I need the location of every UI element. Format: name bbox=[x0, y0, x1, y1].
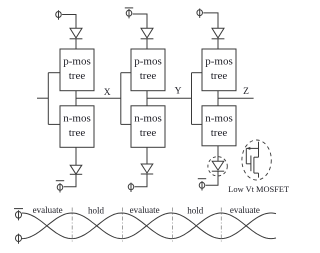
wire p-mos tree to n-mos tree (series connector, stage 3) bbox=[217, 91, 219, 106]
wire input stub into stage 1 bbox=[37, 97, 48, 99]
wire n-mos tree to diode D2b bbox=[146, 147, 148, 164]
wire input bus to p-mos tree input (stage 1) bbox=[48, 72, 60, 74]
diode D1b (bottom, stage 1) bbox=[70, 165, 82, 174]
wire diode D2b to bottom clock (stage 2) bbox=[135, 174, 147, 187]
p-mos tree block (stage 3) bbox=[202, 49, 236, 91]
svg-text:n-mos: n-mos bbox=[63, 112, 91, 124]
svg-text:hold: hold bbox=[88, 206, 105, 216]
input bus vertical wire (stage 1) bbox=[47, 73, 49, 125]
wire diode D1b to bottom clock (stage 1) bbox=[64, 174, 76, 187]
svg-text:tree: tree bbox=[211, 127, 228, 139]
dashed ellipse around low Vt MOSFET symbol bbox=[242, 140, 271, 180]
diode D3a (top, stage 3) bbox=[212, 28, 225, 39]
wire input bus to p-mos tree input (stage 2) bbox=[121, 72, 131, 74]
n-mos tree block (stage 1) bbox=[60, 106, 94, 148]
wire n-mos tree to diode D1b bbox=[75, 147, 77, 165]
wire input bus to n-mos tree input (stage 2) bbox=[121, 123, 131, 125]
wire node X: stage1 output to stage2 input bbox=[76, 97, 121, 99]
input bus vertical wire (stage 2) bbox=[120, 73, 122, 125]
clock phi-bar label (bottom, stage 3) bbox=[198, 179, 206, 191]
diode D2a (top, stage 2) bbox=[141, 28, 154, 39]
diode D2b (bottom, stage 2) bbox=[141, 164, 153, 174]
svg-text:Y: Y bbox=[175, 87, 182, 97]
svg-text:tree: tree bbox=[211, 70, 228, 82]
clock phi label (bottom, stage 2) bbox=[128, 183, 134, 192]
phase boundary dash-dot line 1 bbox=[71, 208, 73, 244]
clock phi-bar waveform label bbox=[14, 209, 23, 221]
diode D3b (bottom, stage 3) bbox=[212, 161, 224, 171]
p-mos tree block (stage 2) bbox=[131, 49, 165, 91]
wire p-mos tree to n-mos tree (series connector, stage 2) bbox=[146, 91, 148, 106]
svg-text:tree: tree bbox=[69, 127, 86, 139]
svg-text:evaluate: evaluate bbox=[130, 205, 160, 215]
svg-text:evaluate: evaluate bbox=[230, 205, 260, 215]
n-mos tree block (stage 2) bbox=[131, 106, 165, 148]
phase boundary dash-dot line 3 bbox=[172, 208, 174, 244]
clock phi-bar label (bottom, stage 1) bbox=[56, 181, 64, 193]
p-mos tree block (stage 1) bbox=[60, 49, 94, 91]
svg-text:p-mos: p-mos bbox=[134, 56, 162, 68]
svg-text:n-mos: n-mos bbox=[205, 112, 233, 124]
n-mos tree block (stage 3) bbox=[202, 106, 236, 146]
wire from top clock to diode D1a bbox=[62, 15, 76, 29]
svg-text:hold: hold bbox=[187, 206, 204, 216]
clock phi-bar label (top, stage 2) bbox=[125, 8, 133, 19]
wire node Y: stage2 output to stage3 input bbox=[147, 97, 192, 99]
wire input bus to n-mos tree input (stage 1) bbox=[48, 123, 60, 125]
clock phi label (top, stage 3) bbox=[197, 9, 203, 18]
svg-text:tree: tree bbox=[69, 70, 86, 82]
phase boundary dash-dot line 2 bbox=[122, 208, 124, 244]
svg-text:p-mos: p-mos bbox=[205, 56, 233, 68]
svg-text:tree: tree bbox=[140, 70, 157, 82]
svg-text:Low Vt MOSFET: Low Vt MOSFET bbox=[228, 185, 289, 194]
wire input bus to p-mos tree input (stage 3) bbox=[192, 72, 203, 74]
svg-text:p-mos: p-mos bbox=[63, 56, 91, 68]
input bus vertical wire (stage 3) bbox=[191, 73, 193, 125]
wire from top clock to diode D2a bbox=[133, 14, 147, 28]
svg-text:tree: tree bbox=[140, 127, 157, 139]
waveform phi-bar curve bbox=[22, 213, 276, 239]
wire node Z: stage3 output bbox=[218, 97, 254, 99]
svg-text:evaluate: evaluate bbox=[33, 205, 63, 215]
wire n-mos tree to diode D3b bbox=[217, 146, 219, 162]
wire diode D1a to p-mos tree box bbox=[75, 39, 77, 49]
wire diode D2a to p-mos tree box bbox=[146, 39, 148, 49]
waveform phi curve bbox=[22, 213, 276, 239]
svg-text:Z: Z bbox=[243, 87, 249, 97]
clock phi waveform label bbox=[15, 234, 21, 244]
wire input bus to n-mos tree input (stage 3) bbox=[192, 123, 203, 125]
wire diode D3a to p-mos tree box bbox=[217, 39, 219, 49]
wire p-mos tree to n-mos tree (series connector, stage 1) bbox=[75, 91, 77, 106]
dashed highlight circle around low-Vt diode D3b bbox=[208, 157, 227, 176]
diode D1a (top, stage 1) bbox=[70, 28, 83, 39]
svg-text:n-mos: n-mos bbox=[134, 112, 162, 124]
wire from top clock to diode D3a bbox=[203, 13, 218, 28]
transistor Q1 (low Vt MOSFET, diode-connected) bbox=[246, 142, 258, 178]
wire diode D3b to bottom clock (stage 3) bbox=[206, 171, 218, 185]
svg-text:X: X bbox=[104, 88, 111, 98]
clock phi label (top, stage 1) bbox=[56, 10, 62, 19]
phase boundary dash-dot line 4 bbox=[220, 208, 222, 244]
